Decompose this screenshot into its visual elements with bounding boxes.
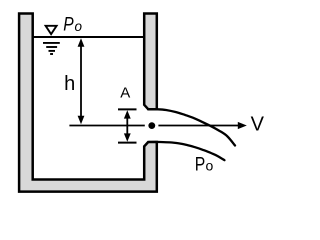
svg-text:V: V <box>251 114 265 136</box>
free surface triangle <box>46 26 57 34</box>
centerline left segment <box>69 125 144 127</box>
svg-text:P: P <box>195 155 206 176</box>
dimension A arrow with end bars <box>118 109 137 142</box>
lower jet curve <box>149 142 225 160</box>
svg-text:A: A <box>120 84 130 101</box>
node dot (jet center) <box>148 122 155 129</box>
label Po (top, italic) <box>63 14 82 36</box>
label Po (bottom right) <box>195 155 214 176</box>
free surface hatch lines <box>43 43 60 54</box>
svg-text:o: o <box>75 19 83 34</box>
dimension h line with arrowheads <box>78 38 85 124</box>
velocity arrow V <box>158 122 246 129</box>
svg-text:h: h <box>64 73 75 95</box>
svg-text:P: P <box>63 14 73 36</box>
tank upper-right wall segment <box>144 14 157 110</box>
water surface line <box>32 36 144 38</box>
upper jet curve <box>148 109 235 145</box>
tank U-shaped wall (left wall, bottom, lower-right wall) <box>19 14 157 192</box>
svg-text:o: o <box>206 158 214 174</box>
